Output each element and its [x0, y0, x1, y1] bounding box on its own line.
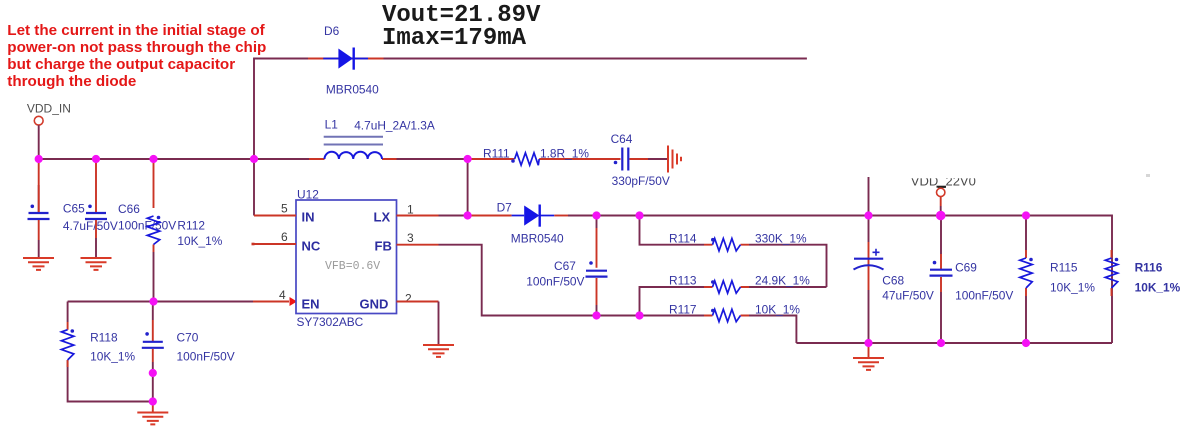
svg-text:10K_1%: 10K_1% — [177, 234, 222, 248]
wire R115 branch — [1025, 216, 1027, 344]
svg-text:100nF/50V: 100nF/50V — [955, 289, 1013, 303]
wire NC pin — [253, 243, 297, 245]
svg-text:IN: IN — [302, 210, 315, 225]
capacitor C65 — [28, 205, 50, 220]
svg-text:MBR0540: MBR0540 — [326, 83, 379, 97]
wire bus to R111 junction — [397, 158, 468, 160]
svg-text:24.9K_1%: 24.9K_1% — [755, 273, 810, 287]
wire LX junction vertical — [467, 159, 469, 216]
wire R111 net red — [468, 158, 648, 160]
wire FB net — [397, 244, 439, 246]
wire C70 branch — [152, 302, 154, 321]
capacitor C68 — [854, 249, 884, 270]
wire output bus — [568, 216, 1112, 344]
wire R114 branch — [640, 216, 705, 245]
svg-text:D7: D7 — [497, 201, 513, 215]
capacitor C64 — [614, 148, 629, 171]
svg-text:R118: R118 — [90, 331, 118, 345]
annotation red text — [7, 22, 266, 90]
svg-text:C67: C67 — [554, 259, 576, 273]
svg-text:C65: C65 — [63, 202, 85, 216]
svg-text:10K_1%: 10K_1% — [1050, 281, 1095, 295]
svg-text:R113: R113 — [669, 273, 697, 287]
svg-text:C66: C66 — [118, 202, 140, 216]
svg-text:1.8R_1%: 1.8R_1% — [540, 147, 589, 161]
resistor R111 — [515, 153, 540, 165]
svg-text:4.7uH_2A/1.3A: 4.7uH_2A/1.3A — [354, 119, 435, 133]
svg-text:100nF/50V: 100nF/50V — [526, 275, 584, 289]
svg-text:EN: EN — [302, 297, 320, 312]
wire LX pin — [397, 215, 439, 217]
wire C65 branch — [38, 159, 40, 240]
svg-text:FB: FB — [375, 239, 392, 254]
capacitor C70 — [142, 332, 164, 348]
svg-text:but charge the output capacito: but charge the output capacitor — [7, 56, 235, 73]
ground under C68 — [853, 358, 884, 370]
ground under U12 — [423, 345, 454, 357]
wire L1 stubs — [309, 158, 397, 160]
svg-text:VFB=0.6V: VFB=0.6V — [325, 260, 380, 273]
resistor R114 — [713, 239, 741, 251]
svg-text:VDD_IN: VDD_IN — [27, 101, 71, 115]
svg-text:R112: R112 — [177, 219, 205, 233]
svg-text:6: 6 — [281, 230, 288, 244]
diode D7 — [512, 205, 555, 227]
svg-text:C70: C70 — [177, 331, 199, 345]
resistor R117 — [713, 309, 741, 321]
svg-text:100nF/50V: 100nF/50V — [177, 350, 235, 364]
resistor R118 — [61, 330, 73, 360]
svg-text:C64: C64 — [611, 132, 633, 146]
wire R116 branch — [1111, 250, 1113, 296]
ground under C65 — [23, 258, 54, 270]
svg-text:Let the current in the initial: Let the current in the initial stage of — [7, 22, 265, 39]
wire C68 branch — [868, 177, 870, 343]
artifact mark — [1146, 174, 1150, 177]
capacitor C67 — [586, 261, 608, 276]
svg-text:2: 2 — [405, 292, 412, 306]
wire C67 branch — [596, 216, 598, 229]
svg-text:1: 1 — [407, 203, 414, 217]
svg-text:R115: R115 — [1050, 261, 1078, 275]
resistor R116 — [1105, 258, 1117, 288]
EN arrow — [290, 297, 298, 306]
wire ground bus bottom right — [796, 342, 1112, 344]
svg-text:D6: D6 — [324, 24, 340, 38]
svg-text:MBR0540: MBR0540 — [511, 231, 564, 245]
wire D6 stubs — [308, 58, 384, 60]
svg-text:C69: C69 — [955, 261, 977, 275]
chip U12 — [296, 200, 397, 314]
svg-text:NC: NC — [302, 239, 321, 254]
wire C69 branch — [940, 216, 942, 344]
wire GND pin — [397, 301, 439, 303]
ground right of C64 — [668, 146, 681, 173]
svg-text:10K_1%: 10K_1% — [1135, 281, 1181, 295]
wire VDD_IN to bus — [38, 125, 40, 159]
ground under C70 — [137, 413, 168, 425]
svg-text:LX: LX — [374, 210, 391, 225]
svg-text:100nF/50V: 100nF/50V — [118, 219, 176, 233]
wire IN pin — [253, 159, 255, 216]
wire R118 branch — [67, 302, 69, 368]
wire top D6 net — [254, 59, 807, 160]
svg-text:GND: GND — [360, 297, 389, 312]
wire C66 branch — [95, 159, 97, 238]
svg-text:330K_1%: 330K_1% — [755, 231, 807, 245]
svg-text:C68: C68 — [882, 274, 904, 288]
svg-text:R111: R111 — [483, 147, 510, 161]
svg-text:through the diode: through the diode — [7, 73, 136, 90]
wire D7 cathode stub — [554, 215, 568, 217]
resistor R115 — [1020, 258, 1032, 288]
wire main input bus — [39, 158, 309, 160]
svg-text:10K_1%: 10K_1% — [755, 302, 800, 316]
inductor L1 — [324, 137, 383, 159]
ground under C66 — [81, 258, 112, 270]
wire VDD_22V0 stub — [940, 197, 942, 206]
svg-text:L1: L1 — [325, 118, 339, 132]
svg-text:Imax=179mA: Imax=179mA — [382, 25, 527, 52]
wire R112 branch — [153, 159, 155, 252]
svg-text:10K_1%: 10K_1% — [90, 350, 135, 364]
svg-text:4: 4 — [279, 288, 286, 302]
capacitor C66 — [85, 205, 107, 220]
diode D6 — [323, 48, 368, 70]
Vout Imax label — [382, 2, 541, 52]
wire output net after LX — [468, 215, 512, 217]
svg-text:4.7uF/50V: 4.7uF/50V — [63, 219, 118, 233]
svg-text:330pF/50V: 330pF/50V — [612, 174, 670, 188]
resistor R113 — [713, 281, 741, 293]
wire R113 branch — [749, 286, 827, 288]
svg-text:5: 5 — [281, 202, 288, 216]
svg-text:R116: R116 — [1135, 261, 1163, 275]
svg-text:R117: R117 — [669, 302, 697, 316]
capacitor C69 — [930, 261, 953, 276]
wire EN net — [68, 301, 253, 303]
svg-text:47uF/50V: 47uF/50V — [882, 289, 934, 303]
svg-text:3: 3 — [407, 231, 414, 245]
resistor R112 — [147, 216, 159, 245]
svg-text:U12: U12 — [297, 188, 319, 202]
svg-text:R114: R114 — [669, 231, 697, 245]
svg-text:SY7302ABC: SY7302ABC — [297, 315, 364, 329]
svg-text:power-on not pass through the: power-on not pass through the chip — [7, 39, 266, 56]
